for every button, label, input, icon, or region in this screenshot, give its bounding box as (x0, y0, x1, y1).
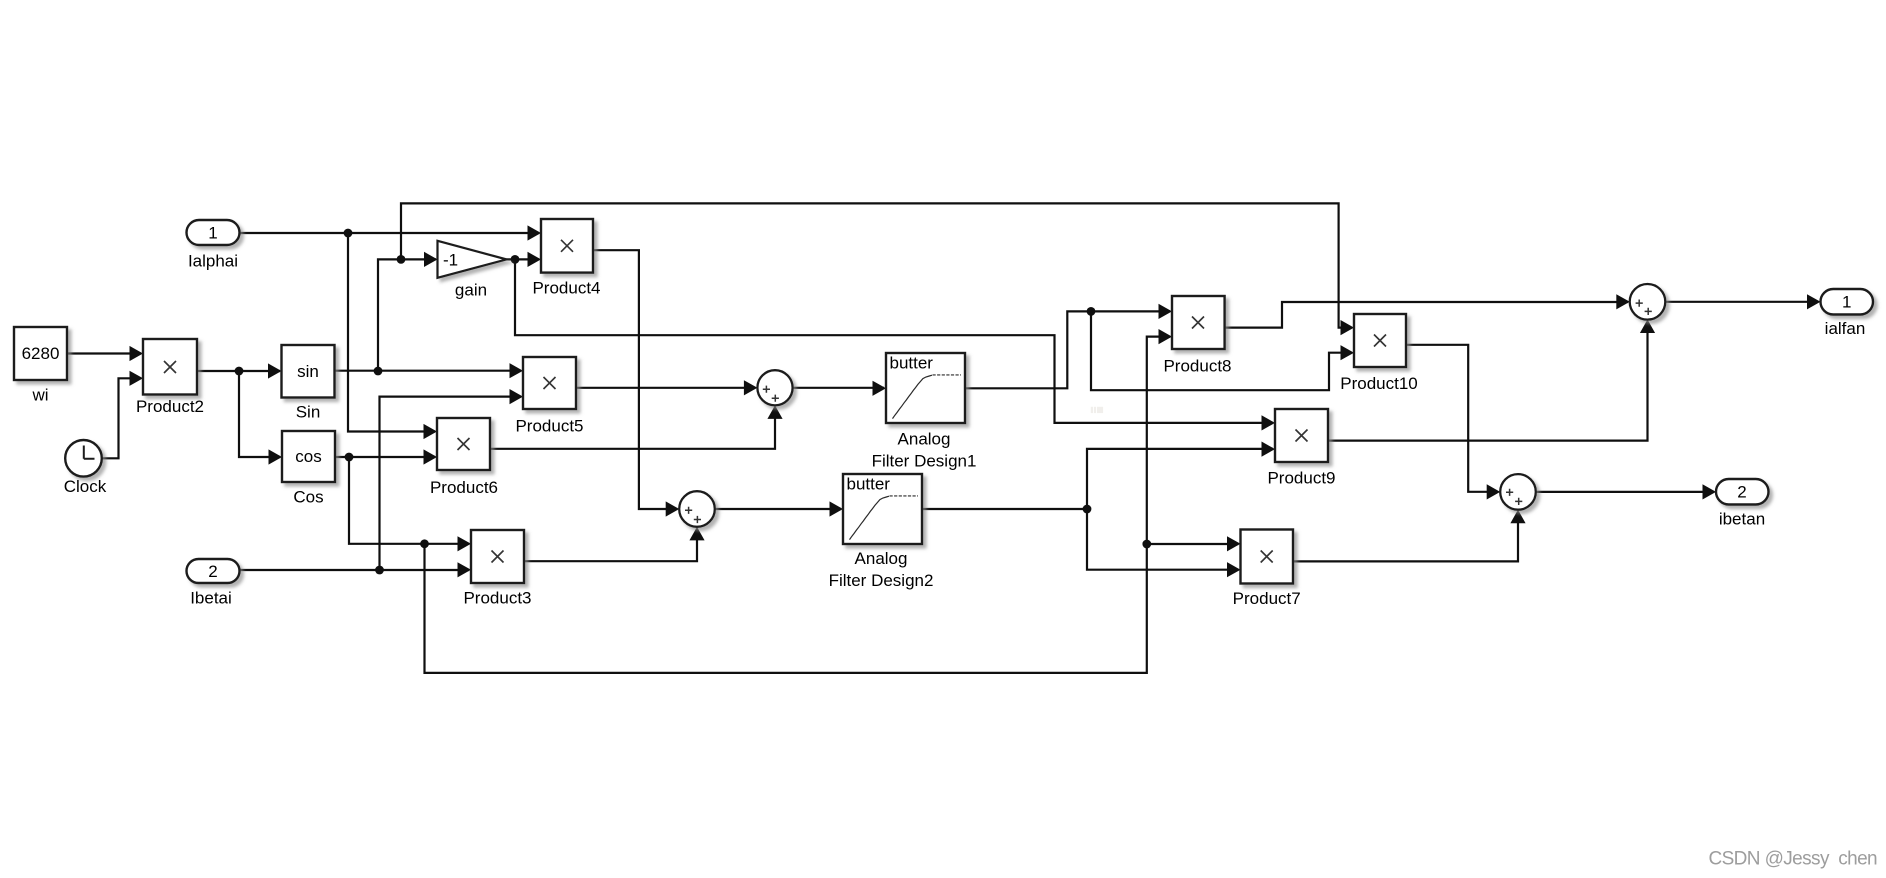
arrow outport1.in (1807, 294, 1821, 309)
svg-text:1: 1 (208, 224, 217, 243)
arrow Product9.in2 (1262, 442, 1276, 457)
block Analog Filter Design1 (886, 353, 965, 423)
node D (397, 255, 406, 264)
block Product8 (1172, 296, 1225, 349)
svg-text:-1: -1 (443, 251, 458, 270)
block wi constant 6280 (14, 327, 67, 380)
svg-text:6280: 6280 (22, 344, 60, 363)
wire (1147, 543, 1239, 545)
svg-text:Clock: Clock (64, 477, 107, 496)
svg-text:Sin: Sin (296, 403, 321, 422)
wire (515, 259, 1273, 423)
node G (375, 566, 384, 575)
arrow sum4.bottom (1510, 510, 1525, 524)
arrow AFD2.in (830, 501, 844, 516)
svg-text:2: 2 (208, 562, 217, 581)
block Product7 (1241, 530, 1294, 584)
node I (1083, 505, 1092, 514)
arrow Product6.in2 (424, 449, 438, 464)
block Product3 (471, 530, 524, 583)
svg-text:Product3: Product3 (463, 589, 531, 608)
block Product6 (437, 418, 490, 470)
arrow AFD1.in (873, 381, 887, 396)
arrow Product4.in1 (528, 225, 542, 240)
block Product2 (143, 339, 197, 395)
wire (715, 508, 841, 510)
node E (511, 255, 520, 264)
svg-text:Product6: Product6 (430, 478, 498, 497)
wire (349, 457, 469, 544)
svg-text:2: 2 (1737, 483, 1746, 502)
block Cos (282, 431, 335, 482)
node K (1142, 540, 1151, 549)
wire (1406, 345, 1498, 492)
arrow Product4.in2 (528, 252, 542, 267)
svg-text:CSDN @Jessy chen: CSDN @Jessy chen (1708, 849, 1877, 870)
node J (1087, 307, 1096, 316)
svg-text:cos: cos (295, 447, 321, 466)
arrow Sin.in (268, 363, 282, 378)
arrow Cos.in (269, 449, 283, 464)
node A (235, 367, 244, 376)
arrow Product8.in2 (1159, 329, 1173, 344)
arrow sum1.left (744, 380, 758, 395)
arrow sum2.bottom (689, 527, 704, 541)
svg-text:Ibetai: Ibetai (190, 589, 232, 608)
svg-text:Product4: Product4 (532, 279, 600, 298)
wire (348, 233, 435, 432)
arrow Product9.in1 (1262, 415, 1276, 430)
wire (380, 397, 522, 570)
svg-text:Analog: Analog (898, 430, 951, 449)
svg-text:Product7: Product7 (1233, 589, 1301, 608)
wire (507, 258, 540, 260)
svg-text:Product8: Product8 (1163, 357, 1231, 376)
node B (344, 229, 353, 238)
arrow Product2.in2 (130, 371, 144, 386)
wire (425, 337, 1171, 673)
wire (1087, 509, 1239, 570)
wire (335, 456, 435, 458)
svg-text:butter: butter (847, 475, 891, 494)
wire (67, 352, 141, 354)
wire (490, 407, 775, 449)
wire (524, 529, 697, 562)
wire (1091, 311, 1352, 390)
arrow Product2.in1 (130, 346, 144, 361)
wire (593, 250, 678, 509)
arrow sum1.bottom (767, 405, 782, 419)
svg-text:ibetan: ibetan (1719, 510, 1765, 529)
block Analog Filter Design2 (843, 474, 922, 544)
svg-text:Cos: Cos (293, 488, 323, 507)
arrow Product8.in1 (1159, 304, 1173, 319)
inport 2 Ibetai (187, 559, 240, 583)
wire (240, 232, 539, 234)
svg-text:Filter Design2: Filter Design2 (829, 571, 934, 590)
node H (420, 539, 429, 548)
sum3 (1630, 284, 1666, 320)
sum1 (757, 370, 792, 405)
block Product4 (541, 219, 593, 273)
svg-text:gain: gain (455, 281, 487, 300)
faint watermark mark (1091, 407, 1103, 413)
svg-text:Product5: Product5 (515, 417, 583, 436)
wire (922, 508, 1087, 510)
block Clock (65, 440, 102, 477)
arrow sum3.bottom (1640, 320, 1655, 334)
wire (378, 259, 436, 371)
wire (335, 370, 522, 372)
node F (345, 453, 354, 462)
block Product9 (1275, 409, 1328, 462)
outport 2 ibetan (1716, 479, 1769, 505)
arrow Product10.in2 (1341, 345, 1355, 360)
wire (240, 569, 469, 571)
arrow Product7.in2 (1227, 562, 1241, 577)
wire (1225, 302, 1628, 328)
svg-text:1: 1 (1842, 293, 1851, 312)
node C (374, 367, 383, 376)
svg-text:Analog: Analog (855, 549, 908, 568)
wire (1293, 512, 1518, 562)
wire (401, 203, 1352, 327)
inport 1 Ialphai (187, 220, 240, 245)
wire (239, 371, 280, 457)
arrow sum2.left (666, 501, 680, 516)
wire (103, 378, 142, 458)
arrow sum4.left (1487, 484, 1501, 499)
sum4 (1500, 474, 1536, 510)
svg-text:ialfan: ialfan (1825, 319, 1866, 338)
svg-text:butter: butter (890, 354, 934, 373)
svg-text:sin: sin (297, 362, 319, 381)
arrow gain.in (424, 252, 438, 267)
wire (1087, 449, 1273, 509)
wire (1665, 301, 1818, 303)
svg-text:Filter Design1: Filter Design1 (872, 452, 977, 471)
arrow Product5.in1 (510, 363, 524, 378)
arrow sum3.left (1616, 294, 1630, 309)
wire (1536, 491, 1714, 493)
arrow Product3.in2 (458, 562, 472, 577)
wire (1328, 322, 1648, 441)
block gain (438, 241, 507, 278)
wire (965, 311, 1170, 388)
wire (197, 370, 280, 372)
arrow Product5.in2 (510, 389, 524, 404)
arrow Product6.in1 (424, 424, 438, 439)
arrow outport2.in (1703, 484, 1717, 499)
svg-text:wi: wi (31, 386, 48, 405)
svg-text:Product10: Product10 (1340, 374, 1418, 393)
svg-text:Product9: Product9 (1267, 469, 1335, 488)
arrow Product3.in1 (458, 536, 472, 551)
block Product5 (523, 357, 576, 409)
sum2 (679, 491, 715, 527)
arrow Product10.in1 (1341, 320, 1355, 335)
block Product10 (1354, 314, 1406, 367)
block Sin (282, 345, 335, 398)
svg-text:Product2: Product2 (136, 397, 204, 416)
arrow Product7.in1 (1227, 536, 1241, 551)
svg-text:Ialphai: Ialphai (188, 252, 238, 271)
wire (793, 387, 884, 389)
wire (576, 387, 756, 389)
outport 1 ialfan (1821, 289, 1874, 315)
